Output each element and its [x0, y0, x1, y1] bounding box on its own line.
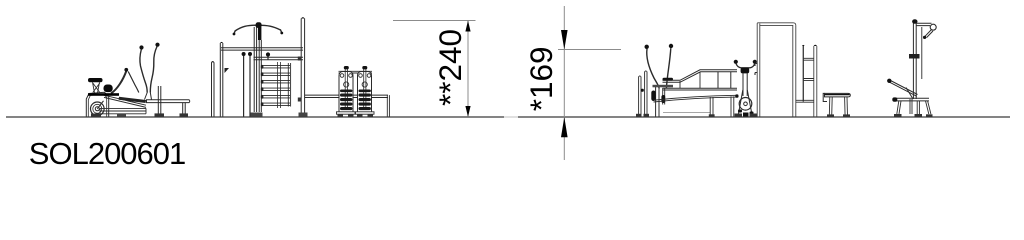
lat station: seat — [893, 98, 929, 101]
elliptical trainer: platform leg — [183, 103, 186, 117]
press station: left lever arm — [647, 49, 659, 89]
dimension 169 arrow top — [561, 30, 568, 50]
dimension 240 arrow top — [465, 21, 470, 32]
svg-text:SOL200601: SOL200601 — [29, 136, 185, 171]
press station: leg pair 1 — [710, 97, 713, 117]
press station: counterweight pill 2 — [661, 95, 665, 103]
multigym: pull-up bar stem black — [258, 27, 261, 40]
lat station: main post — [913, 23, 916, 100]
weight stack unit 1 pulley wheel — [344, 82, 349, 87]
multigym: P4 bracket upper — [298, 57, 301, 61]
weight stack unit 2 plates — [359, 90, 371, 111]
elliptical trainer: flywheel inner ring — [93, 104, 102, 113]
multigym: P4 bracket lower — [298, 98, 301, 102]
bench: feet — [827, 114, 850, 117]
lat station: lever knob — [887, 79, 891, 83]
multigym: base feet left — [251, 113, 263, 117]
elliptical trainer: left arm knob — [139, 45, 143, 49]
bench: left bracket — [823, 93, 827, 101]
multigym: rail R2 — [254, 57, 304, 59]
lat station: clamp — [909, 54, 920, 59]
bike station: handlebar left knob — [734, 60, 738, 64]
weight stack unit 1 frame — [339, 72, 353, 113]
lat station: post base joint — [910, 99, 912, 114]
multigym: rung ladder — [262, 66, 291, 106]
multigym: post P2 — [220, 43, 223, 117]
elliptical trainer: crank arm — [97, 101, 103, 109]
pull-up frame: hooks on left post — [755, 64, 757, 76]
press station: bench vertical supports — [680, 72, 700, 89]
press station: pivot top bar — [653, 85, 674, 88]
bike station: feet — [735, 114, 758, 117]
press station: leg pair 2 — [731, 96, 734, 116]
bench: pad top edge — [825, 94, 850, 96]
bike station: frame legs — [739, 90, 752, 114]
elliptical trainer: pedal rail upper — [104, 95, 146, 105]
multigym: rail end leg — [387, 95, 389, 116]
multigym: stack guide rods — [278, 62, 281, 108]
press station: rear post — [639, 77, 641, 117]
elliptical trainer: left swing arm — [140, 50, 147, 93]
press station: low rail — [654, 95, 737, 102]
weight stack unit 1 rods — [345, 69, 347, 108]
press station: small pivot knob — [641, 89, 644, 92]
dimension 240 extension line — [393, 20, 476, 22]
lat station: leg 3 — [926, 101, 931, 114]
elliptical trainer: front pedal — [119, 97, 146, 103]
svg-text:*169: *169 — [523, 46, 559, 111]
dimension 169 arrow bottom — [561, 117, 568, 137]
press station: lower cross rail — [663, 111, 710, 113]
elliptical trainer: flywheel hub — [95, 107, 99, 111]
multigym: post P2 cap — [220, 42, 223, 43]
press station: front post — [645, 72, 647, 117]
multigym: pull-up bar left end — [234, 31, 235, 34]
elliptical trainer: static handle knob — [124, 68, 128, 72]
elliptical trainer: housing — [86, 92, 108, 116]
elliptical trainer: rear support post — [158, 86, 161, 117]
press station: low rail end tip — [735, 94, 738, 97]
bike station: wheel hub — [744, 102, 748, 106]
weight stack unit 1 pulleys — [340, 74, 344, 78]
press station: feet — [636, 114, 740, 117]
weight stack base plates — [337, 112, 356, 114]
lat station: handle ball — [923, 36, 926, 39]
bike station: pedal — [743, 113, 749, 117]
elliptical trainer: base frame rails — [100, 108, 146, 116]
svg-text:**240: **240 — [432, 29, 468, 106]
multigym: post P4 — [301, 19, 304, 117]
elliptical trainer: rear platform — [147, 100, 190, 103]
elliptical trainer: pedal rail lower — [104, 97, 146, 107]
lat station: lever arm — [890, 81, 918, 97]
pull-up frame: rungs — [803, 58, 814, 80]
dimension 169 extension line — [558, 49, 621, 51]
elliptical trainer: flywheel — [91, 102, 105, 116]
multigym: handle post A — [243, 55, 245, 117]
multigym: post P1 — [212, 62, 215, 117]
multigym: pull-up bar right end — [280, 29, 281, 32]
elliptical trainer: arm-crank links — [145, 93, 152, 100]
dimension 169 line — [563, 6, 565, 160]
multigym: pull-up bar — [235, 25, 281, 31]
press station: bench bracket — [717, 72, 719, 89]
lat station: link — [906, 88, 913, 100]
bike station: handlebar right knob — [753, 60, 757, 64]
bench: leg 2 — [845, 97, 848, 117]
multigym: post P1 cap — [211, 61, 214, 62]
weight stack unit 2 rods — [364, 69, 366, 108]
elliptical trainer: seat bracket — [93, 82, 100, 93]
press station: left lever knob — [645, 45, 649, 49]
multigym: handle knob B — [248, 52, 252, 56]
weight stack unit 2 pulleys — [359, 74, 363, 78]
press station: right lever knob — [669, 44, 673, 48]
pull-up frame: ladder post B — [814, 46, 817, 117]
pull-up frame: low rung — [796, 100, 814, 102]
lat station: feet — [894, 114, 933, 117]
bike station: saddle — [741, 68, 750, 74]
elliptical trainer: seat pad — [88, 78, 103, 82]
lat station: post cap — [912, 19, 917, 24]
weight stack unit 1 plates — [340, 90, 352, 111]
multigym: bottom rail — [305, 95, 388, 97]
ground line left — [6, 116, 504, 118]
lat station: cable — [921, 27, 923, 79]
lat station: leg 2 — [917, 101, 919, 114]
lat station: leg 1 — [897, 101, 901, 114]
multigym: handle post B — [249, 55, 251, 117]
elliptical trainer: base feet — [91, 114, 101, 117]
multigym: center post tube 1 — [254, 27, 256, 112]
ground line overlap light segment — [504, 116, 518, 118]
multigym: wedge marker — [225, 68, 230, 73]
multigym: post P4 cap — [301, 17, 305, 18]
multigym: rung end connectors — [261, 65, 264, 106]
lat station: hanging handle — [925, 30, 933, 38]
multigym: handle knob C stub — [267, 56, 269, 60]
multigym: handle knob C — [266, 52, 270, 56]
weight stack unit 1 rod cap — [344, 66, 349, 69]
lat station: arm pulley — [930, 24, 936, 30]
press station: seat rail — [663, 70, 738, 83]
elliptical trainer: right swing arm — [150, 47, 157, 93]
weight stack feet — [338, 114, 374, 117]
weight stack top bar — [339, 71, 373, 73]
bench: leg 1 — [829, 97, 832, 117]
multigym: rail R1 — [221, 48, 303, 50]
weight stack unit 2 pulley wheel — [362, 82, 367, 87]
ground line right — [518, 116, 1010, 118]
press station: counterweight pill 1 — [651, 91, 655, 102]
elliptical trainer: static handlebar — [111, 71, 127, 94]
dimension 240 line — [467, 21, 469, 118]
press station: mid rail — [663, 88, 738, 90]
multigym: pull-up bar hub — [256, 22, 262, 28]
elliptical trainer: right arm knob — [155, 43, 159, 47]
bench: pad — [825, 93, 851, 97]
pull-up frame: ladder post A — [802, 46, 804, 102]
press station: pivot bracket — [663, 88, 665, 105]
pull-up frame: top bar — [757, 23, 796, 26]
pull-up frame: left post — [757, 24, 760, 117]
bike station: handlebar — [736, 64, 755, 68]
elliptical trainer: main frame beam — [88, 93, 119, 96]
press station: right lever arm — [666, 48, 670, 88]
weight stack unit 2 rod cap — [362, 66, 367, 69]
multigym: handle knob A — [242, 52, 246, 56]
dimension 240 arrow bottom — [465, 106, 470, 117]
bike station: seat post — [743, 73, 747, 96]
press station: pivot column — [656, 86, 659, 117]
bike station: wheel — [739, 98, 752, 111]
weight stack unit 2 frame — [358, 72, 372, 113]
multigym: center post tube 2 — [259, 40, 261, 112]
pull-up frame: right post — [793, 25, 796, 116]
elliptical trainer: adjuster knob blob — [104, 85, 113, 93]
multigym: ladder right tube — [288, 63, 290, 107]
lat station: seat left cap — [892, 97, 897, 101]
lat station: top arm — [916, 23, 931, 25]
press station: seat pad — [663, 78, 674, 81]
